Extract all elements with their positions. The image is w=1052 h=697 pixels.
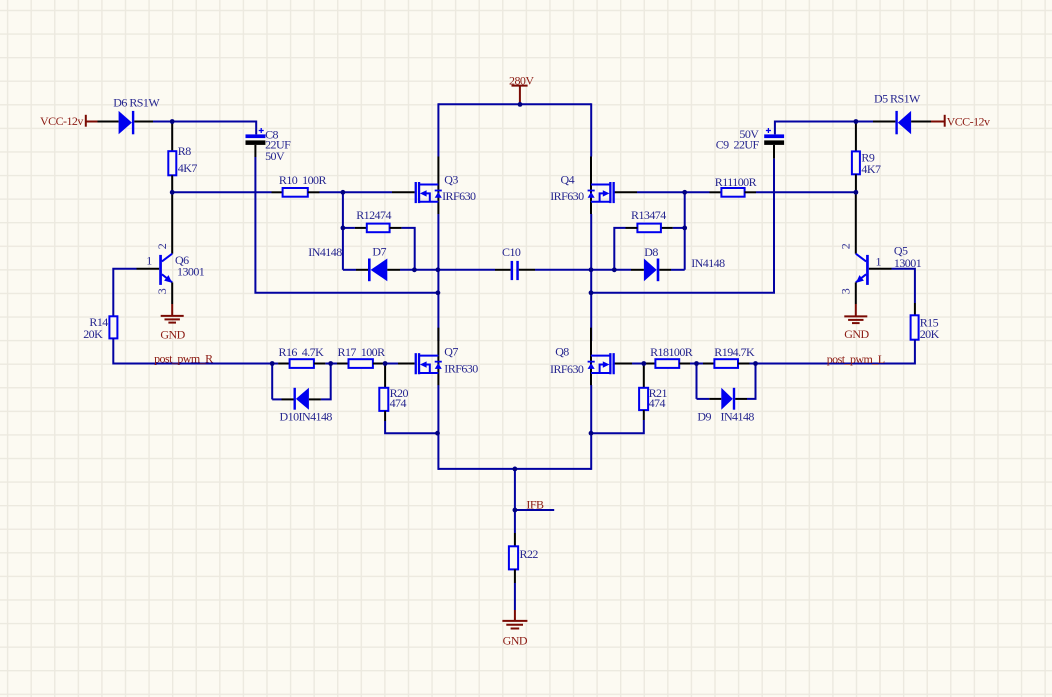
wire	[645, 363, 655, 365]
capacitor C10	[511, 261, 519, 280]
svg-text:R17 100R: R17 100R	[338, 345, 386, 359]
svg-text:VCC-12v: VCC-12v	[947, 114, 990, 128]
svg-text:1: 1	[876, 254, 882, 268]
node R13 branch	[682, 226, 687, 231]
wire	[438, 468, 591, 470]
resistor R21	[639, 388, 648, 410]
svg-text:D10IN4148: D10IN4148	[280, 410, 333, 424]
svg-text:C9 22UF: C9 22UF	[716, 138, 760, 152]
wire	[402, 228, 415, 270]
node bridge bottom center	[513, 467, 518, 472]
node Q3 source left	[436, 267, 441, 272]
wire	[684, 192, 686, 269]
wire	[337, 363, 349, 365]
svg-text:Q8: Q8	[555, 344, 569, 358]
resistor R10	[283, 188, 308, 197]
svg-text:R10 100R: R10 100R	[279, 173, 327, 187]
power port 280V	[512, 86, 528, 104]
wire	[400, 269, 438, 271]
svg-text:IRF630: IRF630	[550, 189, 584, 203]
transistor Q7	[415, 328, 442, 386]
node R12-D7 join	[412, 267, 417, 272]
resistor R9	[852, 151, 860, 174]
node C9 return	[589, 290, 594, 295]
svg-text:R18100R: R18100R	[650, 345, 693, 359]
svg-text:IRF630: IRF630	[550, 362, 584, 376]
wire	[254, 145, 256, 157]
wire	[437, 214, 439, 341]
ground GND right	[844, 304, 867, 323]
wire	[591, 269, 631, 271]
node Q8 gate junction	[641, 361, 646, 366]
power port VCC-12v left	[86, 115, 98, 127]
wire	[325, 363, 337, 365]
svg-text:Q4: Q4	[561, 172, 575, 186]
wire	[398, 363, 415, 365]
resistor R18	[655, 359, 679, 368]
wire	[314, 363, 326, 365]
wire	[632, 363, 645, 365]
wire	[495, 269, 511, 271]
svg-text:IFB: IFB	[526, 497, 544, 511]
wire	[637, 191, 710, 193]
diode D7	[368, 259, 400, 282]
diode D10	[294, 388, 321, 410]
svg-text:R12474: R12474	[356, 208, 391, 222]
svg-text:D9: D9	[697, 409, 711, 423]
wire	[320, 191, 393, 193]
wire	[892, 269, 915, 303]
svg-text:474: 474	[390, 396, 407, 410]
ground GND left	[161, 304, 184, 323]
wire	[679, 363, 690, 365]
resistor R22	[509, 546, 518, 569]
capacitor C8	[246, 128, 266, 145]
svg-text:R194.7K: R194.7K	[714, 345, 755, 359]
transistor Q6	[137, 193, 173, 304]
wire	[690, 363, 703, 365]
svg-text:R11100R: R11100R	[715, 175, 757, 189]
wire	[373, 363, 384, 365]
wire	[643, 365, 645, 388]
transistor Q3	[415, 157, 442, 215]
wire	[671, 269, 685, 271]
resistor R20	[379, 388, 388, 411]
wire	[773, 145, 775, 159]
wire	[514, 569, 516, 583]
resistor R13	[637, 224, 661, 233]
wire	[591, 159, 774, 293]
wire	[590, 385, 592, 470]
wire	[514, 469, 516, 510]
svg-text:Q7: Q7	[444, 344, 458, 358]
wire	[171, 123, 173, 151]
wire	[384, 363, 398, 365]
svg-text:GND: GND	[160, 327, 185, 341]
wire	[631, 269, 644, 271]
svg-text:2: 2	[155, 243, 169, 249]
wire	[756, 340, 915, 364]
wire	[855, 123, 857, 151]
wire	[282, 398, 294, 400]
wire	[914, 303, 916, 315]
transistor Q4	[588, 157, 615, 215]
wire	[113, 269, 136, 317]
wire	[342, 192, 344, 269]
svg-text:Q3: Q3	[444, 172, 458, 186]
wire	[614, 228, 625, 270]
wire	[614, 363, 632, 365]
node R8 bottom junction	[170, 190, 175, 195]
svg-text:3: 3	[155, 288, 169, 294]
wire	[643, 410, 645, 420]
ground GND bottom	[502, 610, 527, 629]
wire	[278, 363, 290, 365]
svg-text:1: 1	[146, 253, 152, 267]
wire	[390, 227, 402, 229]
svg-text:IN4148: IN4148	[721, 409, 755, 423]
resistor R11	[721, 188, 744, 197]
resistor R14	[109, 316, 117, 338]
svg-text:VCC-12v: VCC-12v	[40, 114, 83, 128]
wire	[356, 269, 368, 271]
svg-text:D5 RS1W: D5 RS1W	[874, 91, 921, 105]
node R19 post_pwm_L	[753, 361, 758, 366]
wire	[747, 364, 756, 399]
svg-text:R13474: R13474	[631, 208, 666, 222]
node R16-R17	[328, 361, 333, 366]
node R13-D8 join	[612, 267, 617, 272]
wire	[514, 510, 516, 533]
wire	[703, 363, 714, 365]
wire	[590, 103, 592, 156]
wire	[437, 385, 439, 470]
node Q7 gate junction	[383, 361, 388, 366]
resistor R15	[911, 315, 919, 339]
svg-text:D6 RS1W: D6 RS1W	[113, 96, 160, 110]
svg-text:IRF630: IRF630	[442, 189, 476, 203]
node R18-R19	[694, 361, 699, 366]
wire	[113, 338, 272, 363]
wire	[515, 509, 554, 511]
wire	[626, 227, 638, 229]
diode D6	[119, 111, 153, 134]
diode D8	[644, 259, 671, 282]
wire	[343, 269, 356, 271]
svg-text:13001: 13001	[177, 265, 205, 279]
wire	[153, 122, 256, 135]
node R20 return	[435, 431, 440, 436]
wire	[272, 363, 278, 365]
resistor R19	[714, 359, 738, 368]
wire	[271, 364, 273, 400]
wire	[272, 398, 281, 400]
node IFB junction	[513, 508, 518, 513]
wire	[590, 214, 592, 341]
wire	[614, 191, 637, 193]
node Q4 source right	[589, 267, 594, 272]
svg-text:474: 474	[649, 396, 666, 410]
transistor Q8	[588, 328, 615, 386]
wire	[437, 103, 439, 156]
svg-text:C10: C10	[502, 245, 521, 259]
wire	[384, 365, 386, 388]
node R12 branch	[341, 226, 346, 231]
svg-text:GND: GND	[503, 634, 528, 648]
wire	[355, 227, 367, 229]
wire	[172, 191, 271, 193]
wire	[756, 191, 856, 193]
svg-text:IN4148: IN4148	[308, 245, 342, 259]
wire	[514, 583, 516, 610]
svg-text:D7: D7	[372, 245, 386, 259]
wire	[673, 227, 685, 229]
wire	[591, 420, 644, 433]
resistor R16	[290, 359, 314, 368]
wire	[514, 533, 516, 546]
node Q4 gate junction	[682, 190, 687, 195]
node R9 bottom junction	[854, 190, 859, 195]
svg-text:D8: D8	[644, 245, 658, 259]
wire	[308, 191, 320, 193]
node Q3 gate junction	[341, 190, 346, 195]
node R21 return	[589, 431, 594, 436]
resistor R8	[168, 151, 176, 175]
diode D9	[721, 388, 747, 410]
wire	[255, 157, 438, 293]
svg-text:IN4148: IN4148	[691, 256, 725, 270]
wire	[438, 103, 591, 105]
wire	[661, 227, 673, 229]
resistor R12	[367, 224, 390, 233]
transistor Q5	[856, 193, 892, 304]
node 280V junction	[518, 102, 523, 107]
svg-text:13001: 13001	[894, 256, 922, 270]
wire	[697, 398, 710, 400]
wire	[911, 121, 931, 123]
wire	[750, 363, 756, 365]
resistor R17	[349, 359, 373, 368]
svg-text:post_pwm_R: post_pwm_R	[154, 351, 213, 365]
node VCC right junction	[854, 119, 859, 124]
capacitor C9	[764, 128, 784, 145]
svg-text:20K: 20K	[83, 327, 103, 341]
wire	[519, 269, 535, 271]
svg-text:280V: 280V	[509, 73, 534, 87]
svg-text:4K7: 4K7	[178, 161, 198, 175]
wire	[171, 175, 173, 192]
wire	[855, 174, 857, 192]
wire	[384, 411, 386, 421]
wire	[385, 421, 437, 433]
wire	[745, 191, 756, 193]
wire	[392, 191, 415, 193]
svg-text:2: 2	[839, 243, 853, 249]
wire	[709, 398, 721, 400]
wire	[343, 227, 355, 229]
svg-text:20K: 20K	[920, 327, 940, 341]
node post_pwm_R R16	[270, 361, 275, 366]
wire	[775, 122, 873, 135]
svg-text:3: 3	[839, 288, 853, 294]
svg-text:50V: 50V	[265, 149, 285, 163]
wire	[272, 191, 283, 193]
svg-text:post_pwm_L: post_pwm_L	[827, 352, 885, 366]
wire	[710, 191, 722, 193]
svg-text:R22: R22	[520, 547, 539, 561]
wire	[321, 364, 331, 400]
svg-text:R8: R8	[178, 144, 191, 158]
wire	[738, 363, 750, 365]
node C8 return	[436, 290, 441, 295]
svg-text:R16 4.7K: R16 4.7K	[279, 345, 325, 359]
wire	[98, 121, 119, 123]
diode D5	[873, 111, 911, 134]
wire	[438, 269, 495, 271]
svg-text:GND: GND	[844, 327, 869, 341]
svg-text:4K7: 4K7	[861, 162, 881, 176]
svg-text:IRF630: IRF630	[444, 362, 478, 376]
wire	[696, 364, 698, 399]
power port VCC-12v right	[931, 115, 945, 127]
node VCC left junction	[170, 119, 175, 124]
wire	[535, 269, 591, 271]
